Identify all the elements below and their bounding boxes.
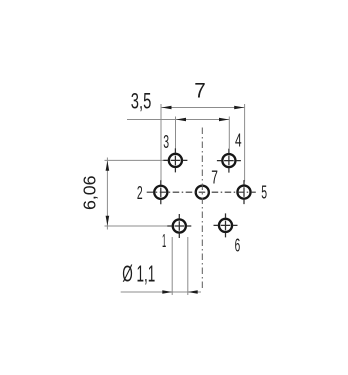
arrow 3,5 right — [219, 118, 229, 122]
crosshair pin 1 — [167, 225, 191, 227]
svg-text:5: 5 — [261, 183, 267, 203]
svg-text:7: 7 — [211, 168, 218, 188]
center line row through pins 2 7 5 — [147, 191, 256, 193]
extension line hole right — [187, 237, 189, 295]
svg-text:7: 7 — [194, 78, 206, 102]
svg-text:3,5: 3,5 — [131, 89, 152, 114]
extension line hole left — [171, 237, 173, 295]
svg-text:4: 4 — [235, 131, 242, 151]
dimension line 3,5 — [127, 119, 229, 121]
crosshair pin 5 vertical — [243, 180, 245, 204]
svg-text:6,06: 6,06 — [79, 176, 99, 211]
arrow 7 right — [234, 106, 244, 110]
crosshair pin 4 — [217, 160, 241, 162]
extension line 6,06 top — [105, 159, 168, 161]
svg-text:3: 3 — [163, 132, 169, 152]
extension line pin2 up — [160, 104, 162, 182]
extension line pin5 up — [244, 104, 246, 182]
pin 3 — [169, 154, 182, 167]
arrow 3,5 left — [176, 118, 186, 122]
crosshair pin 6 — [214, 224, 238, 226]
arrow 7 left — [162, 106, 172, 110]
dimension line 7 — [161, 107, 245, 109]
extension line pin4 up — [228, 117, 230, 149]
crosshair pin 3 — [163, 159, 187, 161]
svg-text:1: 1 — [162, 231, 166, 251]
pin 4 — [222, 154, 235, 167]
pin 1 — [173, 219, 186, 232]
arrow hole left — [162, 290, 172, 294]
dimension line diameter 1,1 — [121, 291, 201, 293]
dimension line 6,06 vertical — [106, 158, 108, 230]
arrow 6,06 top — [106, 161, 110, 171]
center line column through pin 7 — [201, 128, 203, 290]
crosshair pin 2 vertical — [160, 180, 162, 204]
pin 6 — [219, 219, 232, 232]
pin 5 — [237, 186, 250, 199]
svg-text:6: 6 — [235, 236, 241, 256]
extension line pin3 up — [175, 117, 177, 149]
arrow 6,06 bottom — [106, 216, 110, 226]
arrow hole right — [188, 290, 198, 294]
svg-text:Ø 1,1: Ø 1,1 — [122, 261, 155, 287]
svg-text:2: 2 — [137, 183, 143, 203]
extension line 6,06 bottom — [105, 225, 172, 227]
pin 7 — [196, 186, 209, 199]
pin 2 — [154, 186, 167, 199]
